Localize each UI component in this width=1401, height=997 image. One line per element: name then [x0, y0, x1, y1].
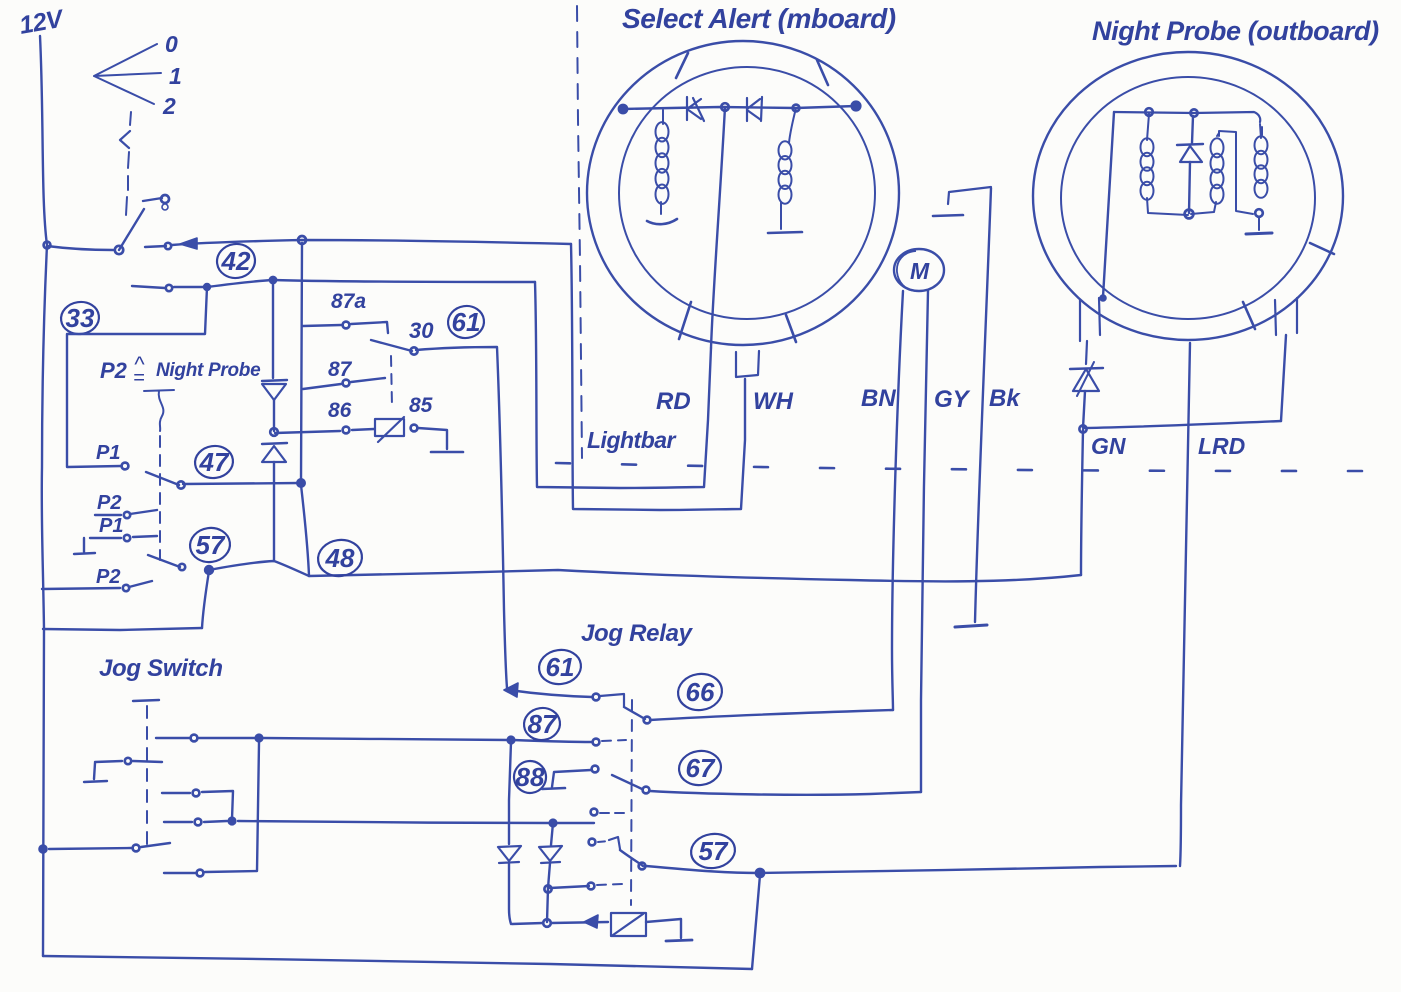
shell tick bottom-left — [679, 302, 691, 339]
relay diode R wire — [547, 863, 550, 922]
svg-text:61: 61 — [452, 307, 481, 337]
bus end dot left — [618, 104, 627, 113]
circled 87 relay — [522, 706, 562, 743]
relay diode L — [498, 846, 521, 863]
jog row4 wire — [164, 821, 594, 823]
relay r6 dot — [588, 883, 595, 890]
select alert inner shell — [619, 67, 875, 319]
motor M circle — [894, 249, 944, 291]
junction diode R bottom — [543, 919, 551, 927]
relay diode L wire — [509, 863, 511, 924]
wire diode chain top — [272, 281, 274, 378]
relay r1 dot — [593, 694, 600, 701]
switch blade P2d — [129, 581, 152, 587]
svg-text:P2: P2 — [100, 358, 128, 383]
wire RD return corner — [535, 282, 711, 488]
np center node dot — [1185, 210, 1194, 219]
Bk top ground bar — [933, 215, 963, 216]
jog row3 dot — [193, 790, 200, 797]
np coil M bracket — [1219, 131, 1253, 214]
jog linkage T bar — [133, 700, 159, 701]
svg-text:P1: P1 — [99, 515, 123, 537]
np tick bottom-right — [1243, 302, 1255, 329]
np coil M — [1211, 138, 1224, 157]
relay r1 node — [644, 717, 651, 724]
relay r1 blade — [624, 707, 645, 719]
contact dot P1c — [124, 535, 130, 541]
coil B stub top — [789, 108, 796, 143]
wire 12V row to relay 30 — [47, 240, 571, 250]
jog row4 junction — [228, 817, 236, 825]
svg-text:Select Alert (mboard): Select Alert (mboard) — [622, 3, 896, 34]
np left tube — [1080, 298, 1100, 341]
relay coil ground — [666, 940, 692, 941]
circled 67 — [677, 748, 723, 788]
wire GN down — [1081, 430, 1083, 575]
np right tube — [1275, 298, 1297, 335]
relay r3 blade — [612, 775, 642, 789]
jog dashed linkage — [146, 706, 148, 845]
svg-text:Lightbar: Lightbar — [587, 427, 677, 453]
coil A stub top — [662, 110, 664, 124]
wire between diodes — [273, 400, 275, 431]
jog row5 wire — [49, 843, 170, 849]
bottom bus wire — [43, 956, 752, 969]
np diode wire — [1189, 116, 1193, 213]
relay blade 30-87a — [371, 340, 412, 351]
junction dot 86 — [270, 428, 278, 436]
svg-text:P2: P2 — [97, 492, 121, 514]
np coil L stub bottom — [1147, 198, 1188, 215]
junction dot 57 — [205, 566, 214, 575]
ground coil B — [768, 232, 802, 233]
coil B stub bottom — [780, 202, 782, 229]
svg-text:M: M — [910, 258, 930, 284]
relay r3 node — [643, 787, 650, 794]
bus end dot right — [851, 101, 861, 111]
circled 47 — [193, 444, 235, 481]
relay r5 dash — [598, 841, 609, 842]
jog row1 junction — [255, 734, 263, 742]
node dot row2 c — [269, 276, 276, 283]
arrow 61 wire — [504, 683, 518, 697]
np tick right — [1310, 243, 1334, 254]
diode D2 — [262, 446, 286, 462]
jog block top wire — [43, 628, 202, 630]
wire center RD inside — [711, 107, 725, 348]
node dot 47 — [177, 481, 184, 488]
node dot 85 — [411, 425, 418, 432]
np node dot b — [1190, 109, 1197, 116]
relay armature dashed — [631, 700, 632, 905]
relay r3 dot — [592, 766, 599, 773]
svg-text:1: 1 — [169, 63, 182, 89]
separator dashed horizontal — [556, 463, 1392, 471]
contact dot row1 — [165, 243, 171, 249]
wire diode R to r6 — [550, 886, 589, 888]
contact dot 87 — [343, 380, 350, 387]
select alert bus wire — [623, 106, 856, 109]
svg-text:30: 30 — [409, 318, 434, 343]
contact dot P1 row — [122, 463, 129, 470]
svg-text:GY: GY — [934, 386, 971, 413]
wire 57 long bus — [209, 561, 1081, 581]
svg-text:88: 88 — [516, 762, 545, 792]
svg-text:42: 42 — [221, 246, 251, 276]
night probe outer shell — [1033, 52, 1343, 340]
relay diode R — [539, 846, 562, 863]
Bk bottom bar — [955, 625, 987, 627]
ground 85 — [431, 451, 463, 454]
wire P2d row — [42, 588, 120, 589]
select alert outer shell — [587, 41, 899, 345]
svg-text:Jog Switch: Jog Switch — [99, 655, 223, 682]
wire BN from motor — [892, 291, 903, 710]
circled 33 — [59, 300, 101, 337]
bus node dot mid — [721, 103, 729, 111]
np diode bar — [1177, 144, 1203, 145]
svg-text:87: 87 — [328, 358, 353, 381]
coil B — [779, 141, 792, 159]
svg-text:Bk: Bk — [989, 385, 1021, 412]
wire right tube down — [1281, 335, 1286, 421]
svg-text:P1: P1 — [96, 442, 120, 464]
wire 47 row — [183, 483, 300, 484]
node dot on 12V bus — [44, 242, 51, 249]
svg-text:GN: GN — [1091, 433, 1126, 459]
node dot 57 blade — [179, 564, 185, 570]
relay coil box top — [375, 417, 404, 442]
relay r4 dot — [591, 809, 598, 816]
wire 87 row — [303, 378, 385, 389]
contact dot P2 row — [124, 512, 130, 518]
relay r5 blade — [620, 850, 643, 866]
svg-text:61: 61 — [546, 652, 575, 682]
wire LRD center down — [1180, 343, 1190, 866]
wire 30 to 61 down — [416, 347, 507, 688]
junction 57 right — [755, 868, 764, 877]
GN junction dot — [1079, 425, 1086, 432]
gn diode cross — [1077, 362, 1094, 396]
wire 12V vertical bus — [40, 36, 47, 629]
svg-text:Night Probe (outboard): Night Probe (outboard) — [1092, 16, 1379, 46]
np node dot a — [1145, 108, 1153, 116]
connector stub WH — [736, 351, 759, 377]
Bk top hook — [948, 187, 991, 204]
lamp diode left — [687, 97, 704, 121]
shell tick top-left — [676, 53, 688, 78]
svg-text:87: 87 — [528, 709, 558, 739]
svg-text:67: 67 — [686, 753, 716, 783]
jog row1 dot a — [191, 735, 198, 742]
circled 61 relay — [537, 647, 583, 687]
np diode — [1180, 146, 1202, 162]
relay r3 ground — [542, 788, 565, 789]
relay r2 dot — [593, 739, 600, 746]
jog row6 dot — [197, 870, 204, 877]
svg-text:Jog Relay: Jog Relay — [581, 620, 694, 647]
contact dot P2d — [123, 585, 129, 591]
node dot 30 — [410, 347, 417, 354]
wire vertical 42 to 47 — [301, 243, 302, 483]
contact dot 86 — [343, 427, 350, 434]
svg-text:P2: P2 — [96, 566, 120, 588]
lamp diode right — [747, 97, 762, 121]
selector terminal stub — [143, 198, 162, 201]
selector linkage arrow — [120, 131, 130, 148]
svg-text:=: = — [133, 367, 145, 389]
wire 86 row — [275, 429, 374, 433]
np coil L stub — [1147, 114, 1149, 140]
P-switch bracket — [144, 390, 174, 431]
jog row4 dot — [195, 819, 202, 826]
relay diode R top — [551, 823, 553, 845]
relay r4 dash — [600, 812, 627, 814]
svg-text:RD: RD — [656, 388, 691, 415]
junction diode R mid — [544, 885, 551, 892]
selector switch blade S1 — [119, 209, 144, 250]
np coil R stub top — [1260, 124, 1261, 138]
relay r6 dash — [597, 884, 623, 885]
selector linkage dashed — [126, 112, 131, 215]
separator dashed vertical — [577, 6, 582, 458]
wire 33 loop — [67, 287, 207, 467]
np bus dash right — [1261, 127, 1263, 135]
circled 66 — [676, 671, 725, 713]
ground coil A — [647, 219, 677, 224]
arrow relay coil wire — [584, 915, 598, 928]
svg-text:BN: BN — [861, 385, 896, 412]
junction diode R top — [549, 819, 557, 827]
np ground bar — [1246, 233, 1272, 234]
svg-text:2: 2 — [162, 93, 176, 119]
np coil R — [1255, 136, 1268, 154]
wire Bk vertical — [975, 188, 991, 622]
circled 61 top — [446, 304, 486, 341]
night probe inner shell — [1061, 77, 1315, 319]
circled 88 — [512, 759, 548, 795]
np coil R bottom dot — [1255, 209, 1263, 217]
jog row2 dot — [125, 758, 131, 764]
svg-text:Night Probe: Night Probe — [156, 360, 261, 381]
node 42 junction dot — [298, 236, 306, 244]
np bus wire — [1114, 112, 1260, 122]
coil A stub bottom — [660, 202, 662, 214]
selector terminal dot — [161, 195, 169, 203]
jog row5 junction on bus — [39, 845, 47, 853]
jog row1 wire — [156, 738, 509, 740]
svg-text:47: 47 — [199, 447, 230, 477]
diode D1 — [262, 384, 286, 400]
shell tick top-right — [817, 60, 828, 85]
np left wire end dot — [1100, 295, 1106, 301]
relay r5 node — [639, 863, 646, 870]
gn diode bar — [1070, 368, 1103, 369]
svg-text:86: 86 — [328, 399, 352, 422]
relay coil box — [611, 913, 646, 936]
switch blade P1 — [146, 472, 179, 485]
wire 57 long — [646, 866, 1176, 873]
wire 61 to relay — [509, 690, 592, 697]
jog block left bus — [43, 629, 44, 956]
svg-text:57: 57 — [196, 530, 226, 560]
selector switch position fan — [94, 44, 161, 104]
wire 66 — [650, 710, 893, 720]
wire GN cross link — [1084, 421, 1281, 428]
wire 42 row — [132, 280, 535, 288]
coil A — [656, 122, 669, 141]
svg-text:LRD: LRD — [1198, 433, 1245, 459]
np tube to diode — [1086, 341, 1087, 364]
wire 47 down to 57 bus — [301, 485, 309, 576]
jog row6 wire — [164, 743, 259, 873]
node dot row2 b — [204, 284, 211, 291]
np coil L — [1141, 138, 1154, 156]
relay r5 dot — [589, 839, 596, 846]
svg-text:57: 57 — [699, 836, 729, 866]
shell tick bottom-right — [786, 315, 796, 342]
P-switch dashed linkage — [159, 436, 161, 560]
button symbol P1c — [74, 538, 95, 554]
wire diode to GN node — [1083, 391, 1085, 428]
diode D1 bar — [262, 380, 287, 381]
circled 48 — [316, 537, 365, 579]
wire stub P2 row — [95, 510, 157, 515]
wire 57 junction to jog block — [202, 571, 209, 628]
wire diode chain bottom — [273, 462, 275, 561]
wire 67 — [650, 791, 921, 795]
switch blade 57 — [148, 555, 180, 567]
jog row2 wire — [95, 761, 162, 762]
contact dot row2 a — [166, 285, 172, 291]
relay coil right wire — [646, 919, 681, 938]
wire 87a row — [303, 322, 388, 333]
svg-text:WH: WH — [753, 388, 794, 415]
relay armature dashed top — [391, 356, 392, 406]
relay left wire down — [509, 742, 511, 844]
np coil R ground stub — [1258, 217, 1260, 230]
wire WH return corner — [571, 244, 745, 510]
relay r5 corner — [609, 837, 620, 849]
svg-text:0: 0 — [165, 31, 178, 57]
selector pivot dot — [115, 246, 123, 254]
junction 87 left — [507, 736, 515, 744]
gn diode — [1073, 369, 1099, 391]
diode D2 bar — [262, 443, 287, 444]
wire P1c row — [90, 536, 157, 538]
svg-text:66: 66 — [686, 677, 715, 707]
wire 85 to ground — [418, 428, 447, 449]
contact dot 87a — [343, 322, 350, 329]
svg-text:48: 48 — [325, 543, 355, 573]
circled 57 relay — [689, 831, 737, 871]
jog row2 button — [84, 763, 107, 782]
circled 57 left — [188, 525, 232, 564]
junction dot 47 right — [297, 479, 305, 487]
svg-text:85: 85 — [409, 394, 433, 417]
wire GY from motor — [921, 291, 928, 792]
relay r2 dash — [602, 740, 626, 741]
wire 87 long — [513, 740, 592, 742]
jog row5 dot — [133, 845, 140, 852]
arrow on wire row1 — [180, 238, 197, 249]
svg-text:87a: 87a — [331, 290, 366, 313]
bus node dot right — [793, 105, 800, 112]
jog row3 wire — [162, 791, 233, 819]
circled 42 — [215, 242, 257, 281]
wire 57 junction down — [752, 875, 760, 969]
np left wire — [1103, 112, 1114, 297]
wire to relay coil — [512, 922, 608, 924]
svg-text:33: 33 — [66, 303, 95, 333]
relay r3 wire left — [552, 770, 591, 787]
relay r1 stub — [600, 694, 624, 706]
np coil M stub — [1191, 133, 1219, 214]
